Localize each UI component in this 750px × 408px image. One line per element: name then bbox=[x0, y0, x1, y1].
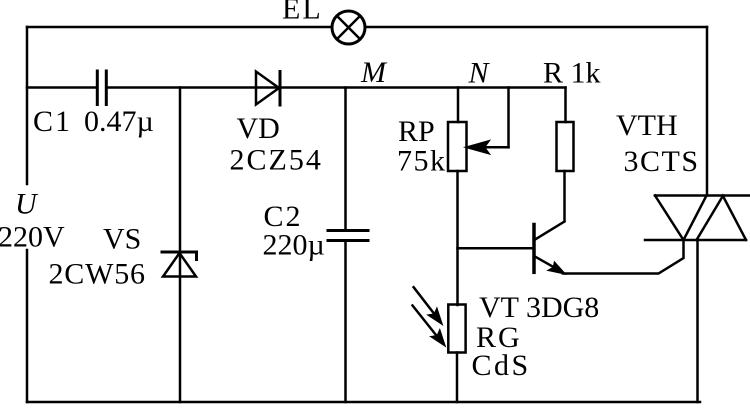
svg-text:CdS: CdS bbox=[472, 349, 531, 382]
zener diode VS bbox=[49, 223, 197, 291]
svg-text:VD: VD bbox=[237, 112, 280, 145]
transistor VT bbox=[458, 222, 600, 324]
wire rail right of C1 bbox=[108, 86, 566, 89]
wire C2 branch upper bbox=[344, 88, 347, 230]
photoresistor RG bbox=[448, 305, 530, 383]
svg-text:2CW56: 2CW56 bbox=[49, 258, 146, 291]
capacitor C1 bbox=[33, 71, 154, 138]
svg-text:M: M bbox=[360, 56, 388, 89]
svg-text:3CTS: 3CTS bbox=[624, 145, 700, 178]
svg-text:VTH: VTH bbox=[616, 109, 678, 142]
wire emitter to gate bbox=[563, 240, 684, 274]
svg-text:2CZ54: 2CZ54 bbox=[230, 144, 323, 177]
svg-text:RP: RP bbox=[398, 115, 435, 148]
resistor R bbox=[543, 57, 601, 172]
light arrow 1 bbox=[414, 287, 442, 323]
potentiometer RP bbox=[397, 88, 509, 178]
wire left vertical upper bbox=[26, 27, 29, 184]
diode VD bbox=[230, 72, 323, 177]
svg-text:U: U bbox=[15, 188, 39, 221]
svg-text:VT 3DG8: VT 3DG8 bbox=[479, 291, 599, 324]
wire C2 branch lower bbox=[344, 242, 347, 402]
svg-text:C1: C1 bbox=[33, 105, 72, 138]
wire top-right segment bbox=[365, 26, 707, 29]
light arrow 2 bbox=[413, 306, 445, 345]
wire RP bottom to RG top bbox=[456, 171, 459, 305]
wire left vertical lower bbox=[26, 250, 29, 402]
wire VS branch bbox=[179, 88, 182, 403]
svg-text:EL: EL bbox=[282, 0, 323, 26]
capacitor C2 bbox=[263, 200, 369, 262]
wire RG bottom bbox=[456, 353, 459, 403]
wire top-left segment bbox=[27, 26, 332, 29]
svg-text:N: N bbox=[468, 57, 491, 90]
wire rail left of C1 bbox=[27, 86, 96, 89]
wire N branch to RP bbox=[457, 88, 460, 123]
svg-text:R 1k: R 1k bbox=[543, 57, 601, 90]
svg-text:220µ: 220µ bbox=[263, 229, 325, 262]
wire MT1 vertical bbox=[696, 240, 699, 402]
lamp EL bbox=[282, 0, 365, 44]
wire R branch bbox=[564, 88, 567, 123]
svg-text:VS: VS bbox=[103, 223, 141, 256]
svg-text:220V: 220V bbox=[0, 221, 65, 254]
wire collector lead bbox=[563, 171, 566, 221]
wire MT2 vertical bbox=[706, 27, 709, 196]
triac VTH bbox=[616, 109, 750, 240]
svg-text:0.47µ: 0.47µ bbox=[84, 105, 154, 138]
svg-text:75k: 75k bbox=[397, 145, 447, 178]
wire bottom rail bbox=[27, 401, 700, 404]
